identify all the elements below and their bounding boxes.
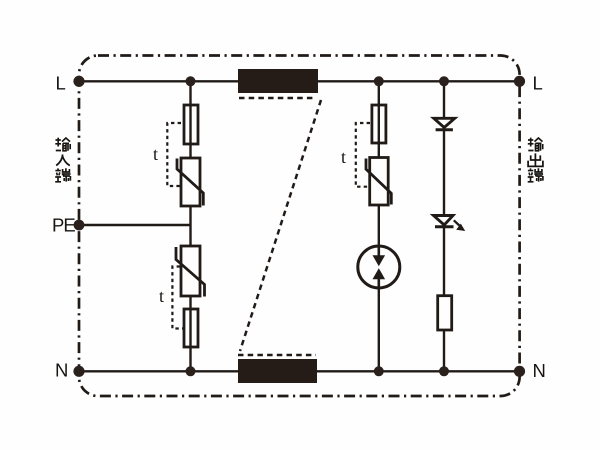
fuse F2 (left bottom) bbox=[184, 309, 198, 347]
varistor RV1 (left top) bbox=[177, 158, 203, 206]
junction dot (L bus / middle branch) bbox=[374, 76, 384, 86]
terminal N (right) bbox=[514, 366, 525, 377]
svg-text:L: L bbox=[533, 73, 543, 94]
junction dot (N bus / middle branch) bbox=[374, 366, 384, 376]
diode D1 (right branch, top) bbox=[434, 118, 455, 130]
terminal L (left) bbox=[73, 76, 84, 87]
varistor RV3 (middle branch) bbox=[366, 158, 391, 206]
LED D2 (right branch, with emission arrow) bbox=[434, 216, 466, 232]
svg-text:L: L bbox=[56, 73, 66, 94]
label 输 (input column char 1) bbox=[55, 138, 70, 151]
label 输 (output column char 1) bbox=[528, 138, 543, 151]
wire PE lead bbox=[79, 224, 191, 226]
varistor RV2 (left bottom) bbox=[176, 246, 205, 297]
enclosure dashed border bbox=[79, 56, 520, 397]
junction dot (N bus / left branch) bbox=[186, 366, 196, 376]
fuse F1 (left top) bbox=[184, 105, 198, 144]
inductor L1 (top, filled core block) bbox=[238, 69, 318, 98]
terminal PE bbox=[74, 220, 85, 231]
svg-text:PE: PE bbox=[52, 215, 75, 236]
thermal link t3 (dashed bracket) bbox=[356, 123, 370, 187]
junction dot (L bus / right branch) bbox=[439, 76, 449, 86]
resistor R1 (right branch) bbox=[438, 296, 452, 330]
svg-text:t: t bbox=[341, 147, 346, 167]
thermal link t2 (dashed bracket) bbox=[172, 267, 183, 329]
junction dot (L bus / left branch) bbox=[186, 76, 196, 86]
terminal N (left) bbox=[73, 366, 84, 377]
inductor L2 (bottom, filled core block) bbox=[238, 355, 317, 383]
label 入 (input column char 2) bbox=[56, 155, 70, 166]
svg-text:N: N bbox=[533, 360, 546, 381]
label 端 (output column char 3) bbox=[528, 168, 543, 182]
thermal link t1 (dashed bracket) bbox=[167, 123, 181, 186]
gas discharge tube GDT (circle with facing arrows) bbox=[358, 246, 400, 288]
junction dot (N bus / right branch) bbox=[439, 366, 449, 376]
wire L bus (top) bbox=[79, 80, 520, 82]
svg-text:t: t bbox=[153, 144, 158, 164]
label 端 (input column char 3) bbox=[55, 168, 70, 182]
svg-text:N: N bbox=[55, 360, 68, 381]
wire right branch vertical bbox=[443, 81, 445, 371]
fuse F3 (middle branch) bbox=[372, 105, 386, 143]
wire left branch vertical bbox=[189, 81, 191, 371]
wire N bus (bottom) bbox=[79, 370, 520, 372]
coupled-core dashed diagonal (Z link) bbox=[240, 100, 321, 351]
wire middle branch vertical bbox=[378, 81, 380, 371]
terminal L (right) bbox=[514, 76, 525, 87]
svg-text:t: t bbox=[159, 286, 164, 306]
label 出 (output column char 2) bbox=[528, 153, 543, 166]
